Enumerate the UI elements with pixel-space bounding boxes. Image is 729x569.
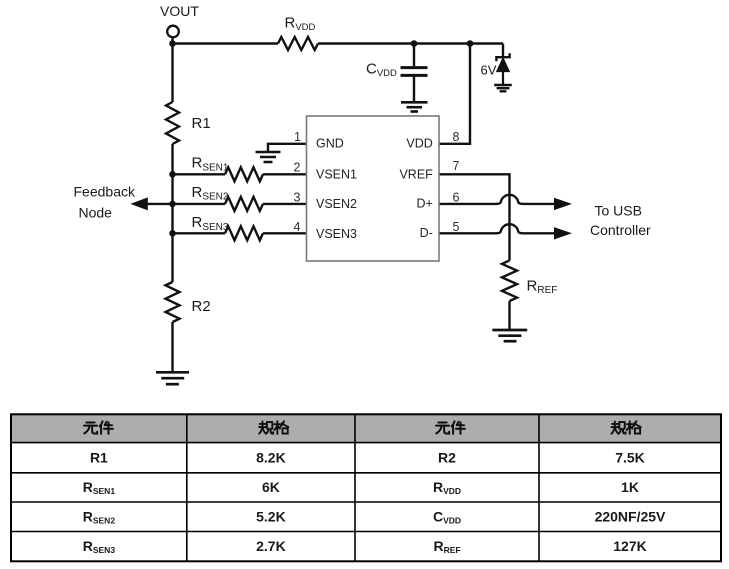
wire pin7 vref (439, 174, 510, 260)
svg-text:6: 6 (453, 190, 460, 204)
op-amp U1 IC body (307, 116, 440, 261)
wire pin4 stub right (263, 232, 307, 234)
resistor RSEN1 (225, 167, 263, 181)
svg-text:Controller: Controller (590, 222, 651, 238)
diode zener 6V (496, 53, 509, 85)
svg-text:5: 5 (453, 220, 460, 234)
ground R2 (156, 372, 189, 384)
capacitor CVDD plates (401, 66, 428, 69)
svg-text:VSEN1: VSEN1 (316, 168, 357, 182)
ground pin1 (256, 152, 281, 162)
svg-text:6K: 6K (262, 479, 280, 495)
svg-text:Feedback: Feedback (74, 183, 136, 199)
table (11, 414, 721, 561)
wire pin3 stub right (263, 203, 307, 205)
svg-text:VREF: VREF (399, 168, 433, 182)
svg-text:8.2K: 8.2K (256, 449, 286, 465)
svg-text:3: 3 (294, 190, 301, 204)
svg-text:5.2K: 5.2K (256, 508, 286, 524)
svg-text:R1: R1 (192, 115, 211, 132)
wire VOUT to top rail (171, 38, 173, 45)
junction dot CVDD (411, 40, 418, 47)
svg-text:Node: Node (79, 204, 113, 220)
junction dot SEN3 (169, 230, 176, 237)
svg-text:7: 7 (453, 159, 460, 173)
resistor R2 (166, 282, 180, 322)
svg-text:To USB: To USB (595, 203, 642, 219)
svg-text:D-: D- (420, 226, 433, 240)
ground zener (494, 85, 512, 91)
wire cvdd drop (413, 44, 415, 67)
svg-text:D+: D+ (416, 197, 432, 211)
wire feedback stub (147, 203, 173, 205)
svg-text:4: 4 (294, 220, 301, 234)
svg-text:1K: 1K (621, 479, 639, 495)
svg-text:VSEN3: VSEN3 (316, 227, 357, 241)
svg-text:7.5K: 7.5K (615, 449, 645, 465)
wire top rail right segment (318, 42, 503, 44)
svg-text:GND: GND (316, 137, 344, 151)
junction dot feedback (169, 201, 176, 208)
wire zener drop (502, 44, 504, 57)
svg-text:8: 8 (453, 130, 460, 144)
wire left bus upper (171, 44, 173, 103)
wire cvdd to gnd (413, 77, 415, 103)
table header cells (84, 421, 641, 434)
svg-text:VSEN2: VSEN2 (316, 197, 357, 211)
ground CVDD (401, 102, 428, 111)
wire rref to gnd (508, 301, 510, 330)
wire pin3 stub left (173, 203, 226, 205)
arrow D- to USB (554, 227, 572, 239)
svg-text:6V: 6V (481, 63, 497, 78)
resistor R1 (166, 102, 179, 144)
wire pin6 d+ with hop (439, 195, 554, 204)
svg-text:VOUT: VOUT (160, 3, 199, 19)
svg-text:R2: R2 (192, 298, 211, 315)
resistor RREF (502, 261, 517, 302)
wire pin4 stub left (173, 232, 226, 234)
wire pin5 d- with hop (439, 224, 554, 233)
svg-text:R1: R1 (90, 449, 108, 465)
svg-text:220NF/25V: 220NF/25V (595, 508, 666, 524)
svg-text:VDD: VDD (406, 137, 432, 151)
junction dot VOUT (169, 40, 176, 47)
wire top rail left segment (173, 42, 279, 44)
wire left bus lower (171, 322, 173, 372)
table body text (83, 449, 666, 555)
svg-text:127K: 127K (613, 538, 646, 554)
ground RREF (492, 330, 527, 341)
arrow D+ to USB (554, 198, 572, 210)
node VOUT terminal (167, 26, 179, 38)
wire pin8 to rail (439, 44, 470, 144)
svg-text:2: 2 (294, 161, 301, 175)
resistor RVDD (278, 37, 318, 50)
junction dot VDD (467, 40, 474, 47)
resistor RSEN3 (225, 226, 263, 240)
wire left bus middle (171, 144, 173, 282)
svg-text:1: 1 (294, 130, 301, 144)
wire pin2 stub left (173, 173, 226, 175)
wire pin1 gnd stub (268, 144, 307, 152)
svg-text:R2: R2 (438, 449, 456, 465)
resistor RSEN2 (225, 197, 263, 211)
svg-text:2.7K: 2.7K (256, 538, 286, 554)
wire pin2 stub right (263, 173, 307, 175)
arrow feedback node (130, 197, 147, 210)
junction dot SEN1 (169, 171, 176, 178)
